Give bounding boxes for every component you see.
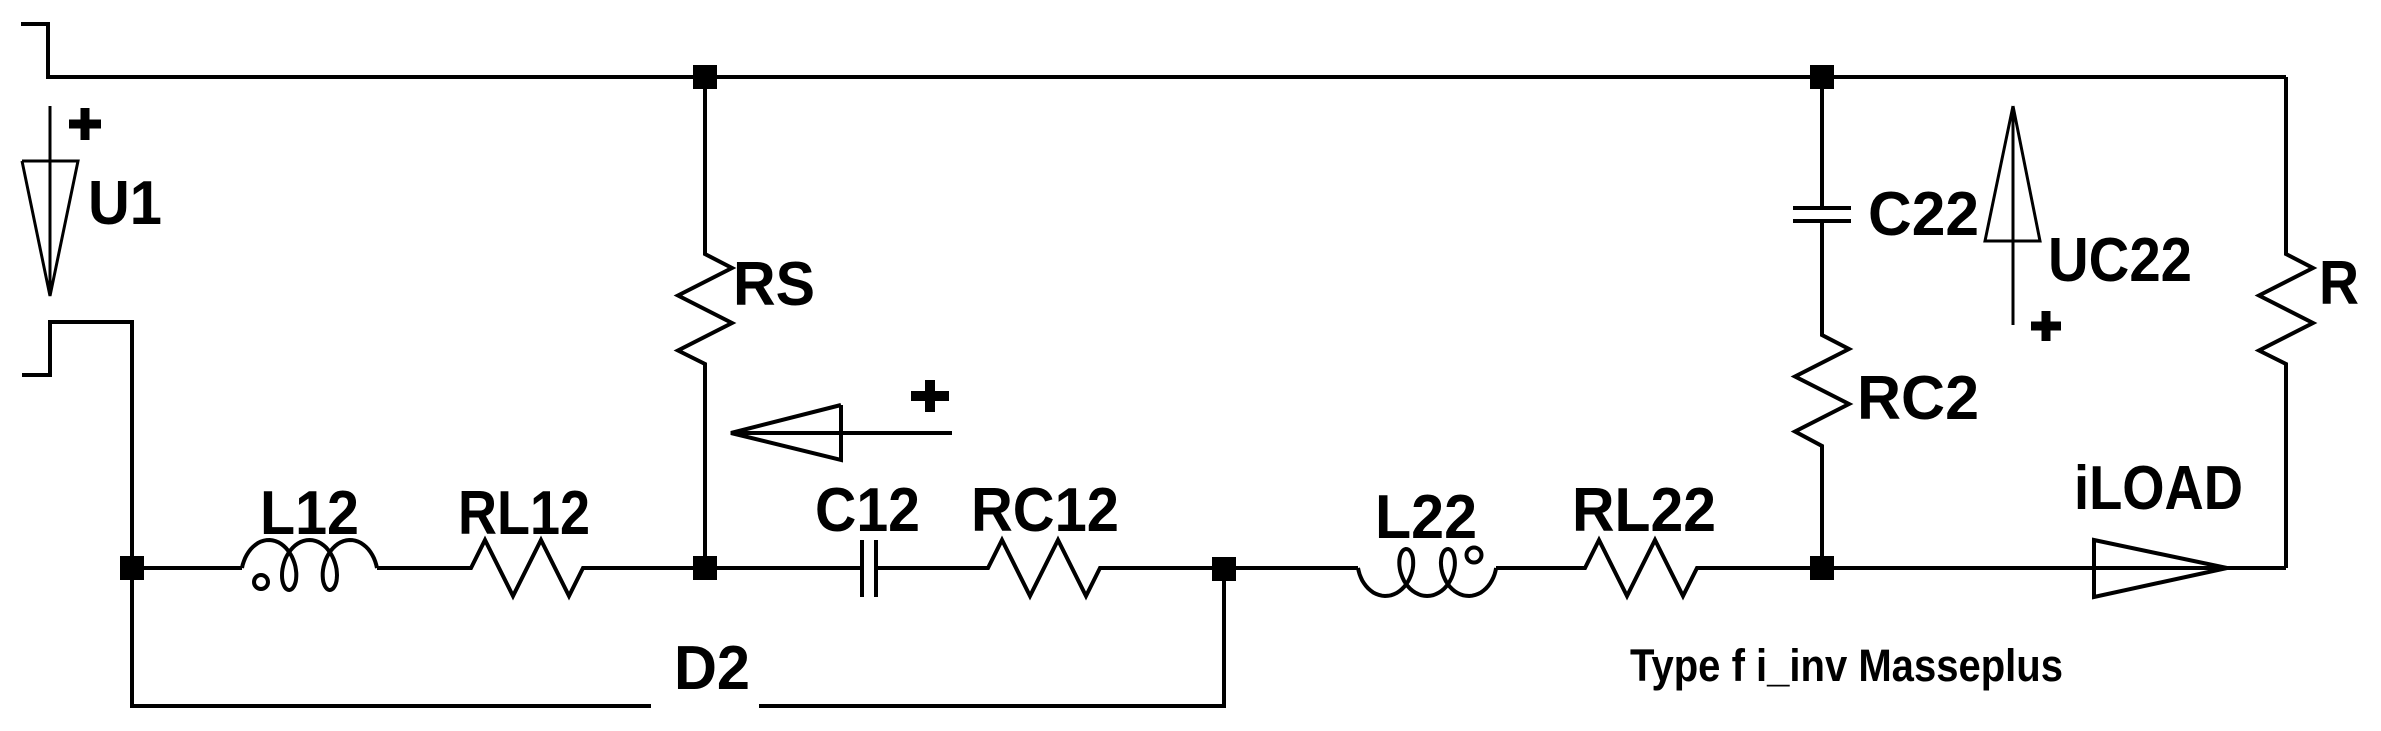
svg-text:L12: L12 bbox=[260, 479, 359, 548]
svg-text:RL12: RL12 bbox=[458, 479, 590, 548]
svg-text:C22: C22 bbox=[1868, 180, 1979, 249]
svg-text:RC12: RC12 bbox=[971, 476, 1119, 545]
svg-text:Type f i_inv Masseplus: Type f i_inv Masseplus bbox=[1630, 640, 2063, 691]
svg-text:UC22: UC22 bbox=[2048, 226, 2192, 295]
svg-text:iLOAD: iLOAD bbox=[2074, 454, 2243, 523]
svg-text:R: R bbox=[2319, 249, 2359, 318]
svg-text:D2: D2 bbox=[674, 634, 750, 703]
svg-text:RS: RS bbox=[733, 250, 815, 319]
svg-text:U1: U1 bbox=[88, 169, 162, 238]
svg-text:C12: C12 bbox=[815, 476, 920, 545]
svg-text:L22: L22 bbox=[1375, 483, 1477, 552]
svg-text:RC2: RC2 bbox=[1857, 364, 1979, 433]
svg-text:RL22: RL22 bbox=[1572, 476, 1716, 545]
